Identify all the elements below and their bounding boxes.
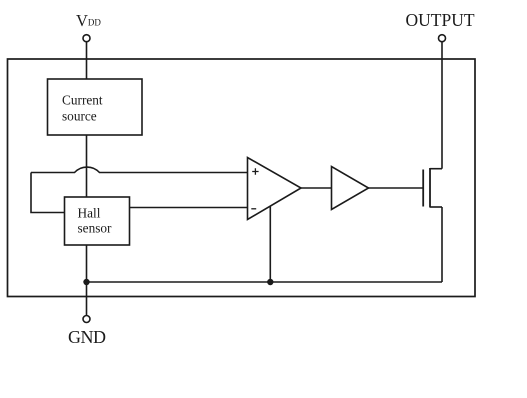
svg-text:source: source	[62, 109, 97, 124]
plus pin mark	[252, 168, 258, 174]
wire buffer output to gate	[369, 187, 423, 189]
current source block	[48, 79, 143, 135]
svg-text:sensor: sensor	[78, 221, 113, 236]
wire left loop to hall sensor left	[31, 173, 65, 213]
wire current source to hall sensor	[86, 135, 88, 197]
transistor Q1 drain arm	[430, 168, 442, 170]
wire hall left to comparator plus input with hop	[31, 167, 248, 172]
svg-text:Current: Current	[62, 93, 103, 108]
transistor Q1 channel bar	[429, 168, 431, 208]
svg-text:VDD: VDD	[76, 11, 101, 30]
svg-text:GND: GND	[68, 327, 106, 347]
OUTPUT terminal	[439, 35, 446, 42]
wire source to ground rail	[441, 207, 443, 282]
buffer amplifier U2	[332, 167, 369, 210]
op-amp comparator U1	[248, 158, 302, 220]
wire comparator output to buffer	[301, 187, 332, 189]
wire VDD to current source	[86, 42, 88, 79]
wire comparator ground	[269, 206, 271, 282]
VDD terminal	[83, 35, 90, 42]
svg-text:Hall: Hall	[78, 205, 101, 220]
svg-text:OUTPUT: OUTPUT	[406, 10, 475, 30]
junction dot at comparator ground	[267, 279, 273, 285]
GND terminal	[83, 316, 90, 323]
wire hall right to comparator minus input	[130, 207, 248, 209]
wire hall bottom to ground rail	[86, 245, 88, 282]
wire ground rail to GND terminal	[86, 282, 88, 315]
transistor Q1 gate bar	[422, 170, 424, 207]
hall sensor block	[65, 197, 130, 245]
wire drain to output terminal	[441, 42, 443, 169]
ground rail wire	[87, 281, 443, 283]
minus pin mark	[251, 208, 256, 210]
junction dot at hall ground	[83, 279, 89, 285]
transistor Q1 source arm	[430, 206, 442, 208]
IC boundary	[8, 59, 476, 297]
